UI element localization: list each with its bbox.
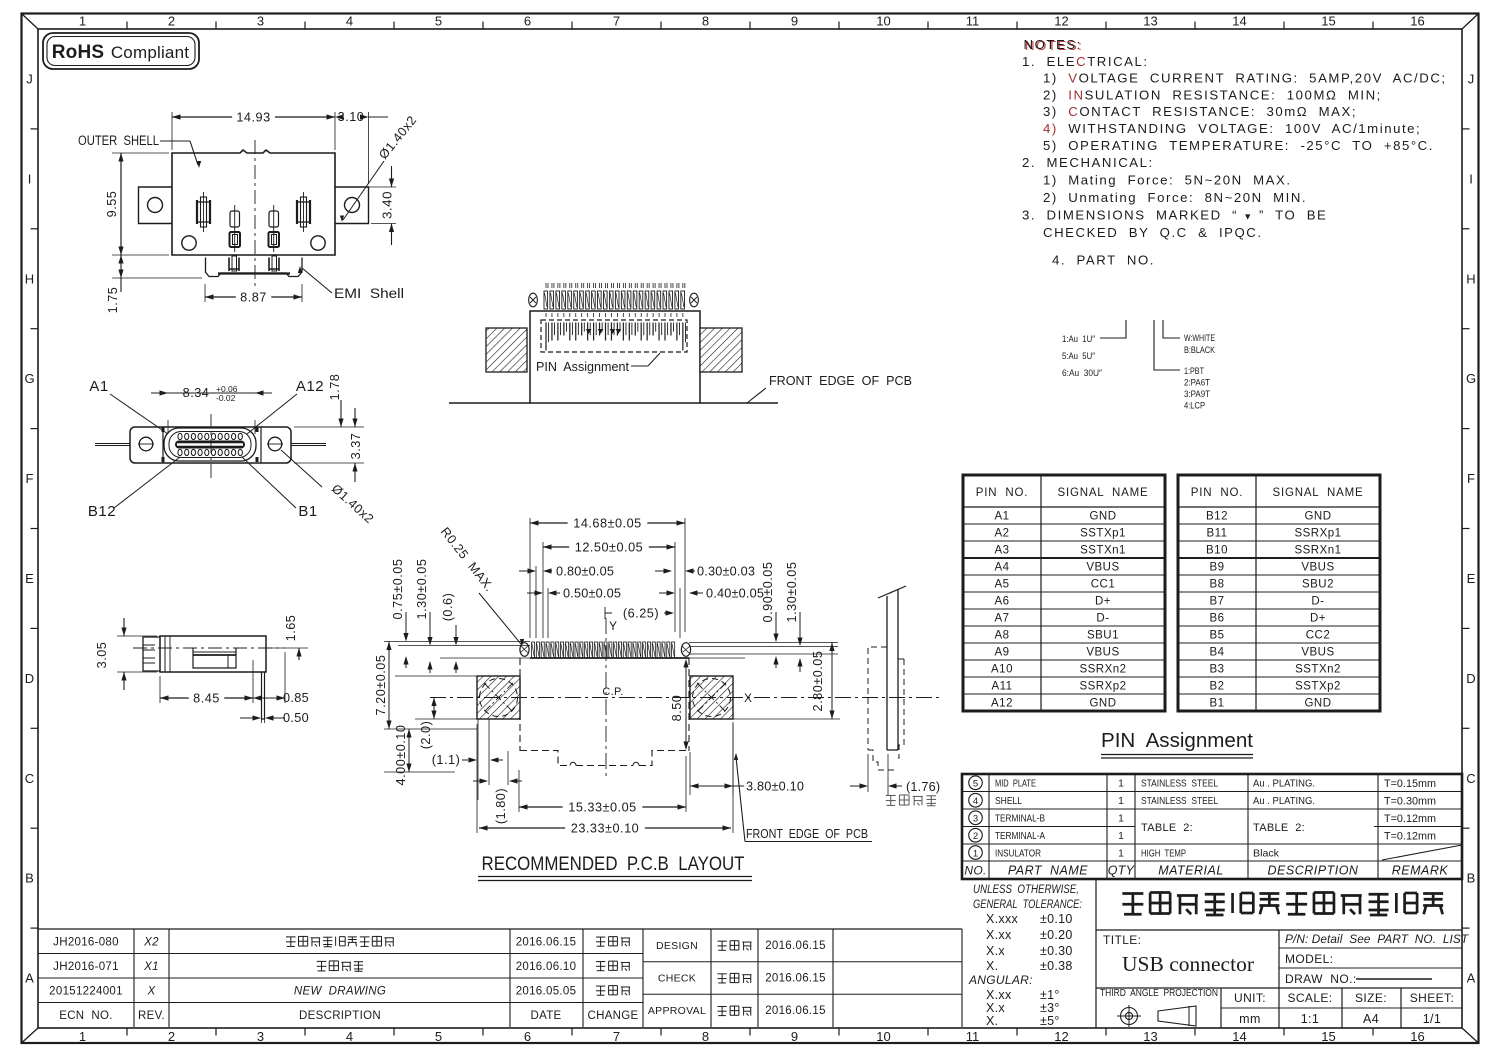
view front face	[88, 374, 377, 527]
svg-text:PART NAME: PART NAME	[1008, 864, 1088, 878]
svg-text:1.30±0.05: 1.30±0.05	[415, 559, 429, 620]
svg-text:8.45: 8.45	[193, 692, 220, 706]
svg-text:0.75±0.05: 0.75±0.05	[391, 559, 405, 620]
svg-text:Y: Y	[609, 619, 618, 633]
svg-text:2016.06.15: 2016.06.15	[765, 940, 826, 952]
svg-text:X: X	[147, 985, 157, 997]
svg-text:PIN Assignment: PIN Assignment	[1101, 730, 1253, 752]
dim 4.00	[384, 725, 455, 786]
svg-text:15: 15	[1321, 1029, 1335, 1044]
svg-text:A: A	[1467, 971, 1476, 986]
centerline view1	[254, 140, 256, 287]
dim 14.93	[172, 111, 335, 151]
extension lines right layout	[689, 643, 840, 720]
left mounting tab	[139, 187, 173, 224]
revision table	[38, 929, 962, 1027]
column numbers bottom	[79, 1029, 1425, 1045]
svg-text:2016.05.05: 2016.05.05	[516, 985, 577, 997]
label A12	[247, 378, 324, 434]
svg-text:SHEET:: SHEET:	[1410, 991, 1454, 1005]
label B12	[88, 457, 180, 520]
svg-text:GND: GND	[1304, 698, 1331, 710]
svg-text:B6: B6	[1209, 613, 1224, 625]
svg-text:0.90±0.05: 0.90±0.05	[761, 562, 775, 623]
title RECOMMENDED PCB LAYOUT	[478, 853, 752, 881]
svg-text:5: 5	[435, 1029, 442, 1044]
svg-text:PIN NO.: PIN NO.	[976, 487, 1028, 499]
svg-text:±0.10: ±0.10	[1040, 912, 1073, 926]
svg-text:2. MECHANICAL:: 2. MECHANICAL:	[1022, 155, 1154, 170]
dim 0.75 left	[391, 559, 409, 668]
svg-text:13: 13	[1143, 1029, 1157, 1044]
pads row layout	[520, 642, 691, 658]
hatch left layout	[477, 676, 520, 719]
dim 3.80	[690, 722, 804, 795]
svg-text:5) OPERATING TEMPERATURE: -: 5) OPERATING TEMPERATURE: -25°C TO +85°C…	[1043, 138, 1434, 153]
tiny pad labels	[546, 283, 685, 317]
svg-text:2016.06.15: 2016.06.15	[516, 936, 577, 948]
svg-text:A12: A12	[296, 378, 324, 395]
column numbers top	[79, 14, 1425, 29]
tolerance block	[968, 879, 1096, 1028]
svg-text:12: 12	[1054, 14, 1068, 29]
svg-text:G: G	[24, 371, 34, 386]
svg-text:FRONT EDGE OF PCB: FRONT EDGE OF PCB	[769, 373, 912, 388]
svg-text:INSULATOR: INSULATOR	[995, 847, 1041, 859]
svg-text:STAINLESS STEEL: STAINLESS STEEL	[1141, 778, 1218, 790]
svg-text:DESCRIPTION: DESCRIPTION	[299, 1010, 381, 1022]
svg-text:15.33±0.05: 15.33±0.05	[568, 801, 636, 815]
svg-text:J: J	[26, 71, 33, 86]
svg-text:SHELL: SHELL	[995, 795, 1022, 807]
svg-text:C: C	[25, 771, 34, 786]
svg-text:ANGULAR:: ANGULAR:	[968, 973, 1033, 987]
svg-text:15: 15	[1321, 14, 1335, 29]
svg-text:A5: A5	[994, 579, 1009, 591]
svg-text:2: 2	[973, 831, 978, 842]
projection and sheet info	[1100, 988, 1462, 1028]
board edge lines	[878, 586, 906, 750]
svg-text:±1°: ±1°	[1040, 988, 1060, 1002]
svg-text:7: 7	[613, 1029, 620, 1044]
svg-text:X.xx: X.xx	[986, 928, 1012, 942]
view top on PCB	[449, 283, 912, 403]
svg-text:D+: D+	[1310, 613, 1326, 625]
dim 12.50	[543, 541, 675, 639]
svg-text:SBU2: SBU2	[1302, 579, 1334, 591]
svg-text:SBU1: SBU1	[1087, 630, 1119, 642]
svg-text:3: 3	[257, 1029, 264, 1044]
svg-text:RECOMMENDED P.C.B LAYOUT: RECOMMENDED P.C.B LAYOUT	[482, 853, 745, 875]
svg-text:(2.0): (2.0)	[419, 721, 433, 750]
svg-text:9: 9	[791, 14, 798, 29]
svg-text:ECN NO.: ECN NO.	[59, 1010, 113, 1022]
svg-text:A2: A2	[994, 528, 1009, 540]
svg-text:B: B	[25, 871, 34, 886]
svg-text:SSRXn1: SSRXn1	[1294, 545, 1341, 557]
svg-text:REV.: REV.	[138, 1010, 165, 1022]
svg-text:2) Unmating Force: 8N~20N: 2) Unmating Force: 8N~20N MIN.	[1043, 190, 1307, 205]
PIN Assignment title	[1101, 730, 1253, 758]
pcb edge lines	[449, 402, 778, 404]
svg-text:DATE: DATE	[530, 1010, 561, 1022]
svg-text:STAINLESS STEEL: STAINLESS STEEL	[1141, 795, 1218, 807]
dim 1.75	[106, 255, 202, 313]
svg-text:B:BLACK: B:BLACK	[1184, 345, 1216, 356]
front connector insert	[164, 428, 256, 461]
svg-text:4:LCP: 4:LCP	[1184, 401, 1205, 412]
svg-text:UNLESS OTHERWISE,: UNLESS OTHERWISE,	[973, 884, 1079, 896]
svg-text:9: 9	[791, 1029, 798, 1044]
label dia 1.40x2 view2	[281, 450, 376, 526]
svg-text:1: 1	[1118, 814, 1124, 825]
svg-text:CHECK: CHECK	[658, 973, 696, 985]
svg-text:3.80±0.10: 3.80±0.10	[746, 780, 804, 794]
svg-text:B12: B12	[1206, 511, 1228, 523]
svg-text:B11: B11	[1206, 528, 1227, 540]
svg-text:A1: A1	[89, 378, 108, 395]
dim 0.50	[240, 710, 309, 725]
svg-text:X: X	[744, 691, 753, 705]
svg-text:MID PLATE: MID PLATE	[995, 778, 1036, 790]
svg-text:H: H	[25, 271, 34, 286]
svg-text:DESIGN: DESIGN	[656, 940, 698, 952]
right mounting tab	[335, 187, 369, 224]
pin table A	[963, 475, 1165, 711]
pin table B	[1178, 475, 1380, 711]
side solder pin	[262, 672, 265, 719]
dim 2.80	[811, 643, 835, 720]
svg-text:3:PA9T: 3:PA9T	[1184, 389, 1210, 400]
dim 0.6 left	[441, 593, 459, 673]
dim 9.55	[105, 153, 169, 255]
svg-text:1.75: 1.75	[106, 287, 120, 314]
svg-text:B2: B2	[1209, 681, 1224, 693]
centerline view2	[210, 414, 212, 481]
dim 1.1	[432, 719, 503, 800]
svg-text:±0.20: ±0.20	[1040, 928, 1073, 942]
svg-text:D: D	[25, 671, 34, 686]
svg-text:7.20±0.05: 7.20±0.05	[374, 655, 388, 716]
dim 3.05	[95, 618, 157, 690]
svg-text:Black: Black	[1253, 847, 1280, 859]
svg-text:T=0.12mm: T=0.12mm	[1384, 813, 1436, 825]
label OUTER SHELL	[78, 133, 201, 168]
svg-text:4: 4	[346, 14, 353, 29]
svg-text:DESCRIPTION: DESCRIPTION	[1268, 864, 1359, 878]
svg-text:TERMINAL-A: TERMINAL-A	[995, 830, 1045, 842]
svg-text:SSTXn1: SSTXn1	[1080, 545, 1126, 557]
svg-text:-0.02: -0.02	[216, 393, 236, 403]
svg-text:0.50±0.05: 0.50±0.05	[563, 587, 621, 601]
svg-text:10: 10	[876, 1029, 890, 1044]
svg-text:X.xxx: X.xxx	[986, 912, 1019, 926]
svg-text:SSRXp1: SSRXp1	[1294, 528, 1341, 540]
svg-text:16: 16	[1410, 1029, 1424, 1044]
notes text block	[1022, 37, 1447, 267]
svg-text:B12: B12	[88, 503, 116, 520]
svg-text:0.85: 0.85	[283, 691, 309, 705]
svg-text:1: 1	[1118, 831, 1124, 842]
svg-text:UNIT:: UNIT:	[1234, 991, 1266, 1005]
svg-text:1: 1	[1118, 796, 1124, 807]
svg-text:2.80±0.05: 2.80±0.05	[811, 651, 825, 712]
svg-text:2016.06.15: 2016.06.15	[765, 1005, 826, 1017]
label FRONT EDGE OF PCB layout	[734, 753, 872, 842]
svg-text:APPROVAL: APPROVAL	[648, 1005, 706, 1017]
svg-text:(0.6): (0.6)	[441, 593, 455, 622]
svg-text:14: 14	[1232, 14, 1246, 29]
svg-text:F: F	[26, 471, 34, 486]
svg-text:1:PBT: 1:PBT	[1184, 366, 1204, 377]
svg-text:1. ELECTRICAL:: 1. ELECTRICAL:	[1022, 54, 1149, 69]
svg-text:2016.06.10: 2016.06.10	[516, 961, 577, 973]
svg-text:14.68±0.05: 14.68±0.05	[573, 517, 641, 531]
svg-text:3. DIMENSIONS MARKED “ ▼ ”: 3. DIMENSIONS MARKED “ ▼ ” TO BE	[1022, 207, 1327, 222]
svg-text:GND: GND	[1089, 698, 1116, 710]
dim 8.87	[205, 284, 302, 305]
svg-text:B5: B5	[1209, 630, 1224, 642]
view outer shell	[78, 110, 420, 313]
label EMI Shell	[298, 266, 404, 301]
svg-text:B9: B9	[1209, 562, 1224, 574]
svg-text:B1: B1	[1209, 698, 1224, 710]
svg-text:11: 11	[966, 1029, 980, 1044]
svg-text:±0.38: ±0.38	[1040, 959, 1073, 973]
svg-text:NOTES:: NOTES:	[1024, 37, 1082, 52]
svg-text:14: 14	[1232, 1029, 1246, 1044]
svg-text:A8: A8	[994, 630, 1009, 642]
svg-text:3.40: 3.40	[381, 191, 395, 219]
shell rivet holes	[182, 236, 325, 250]
svg-text:C: C	[1466, 771, 1475, 786]
svg-text:1: 1	[79, 14, 86, 29]
svg-text:4: 4	[346, 1029, 353, 1044]
svg-text:H: H	[1466, 271, 1475, 286]
svg-text:JH2016-080: JH2016-080	[53, 936, 119, 948]
svg-text:T=0.30mm: T=0.30mm	[1384, 795, 1436, 807]
svg-text:D: D	[1466, 671, 1475, 686]
dim 8.50	[670, 659, 689, 750]
svg-text:1: 1	[973, 848, 978, 859]
front pins	[163, 427, 257, 462]
svg-text:D-: D-	[1311, 596, 1324, 608]
connector dashed profile	[868, 647, 904, 770]
svg-text:1.30±0.05: 1.30±0.05	[785, 562, 799, 623]
svg-text:0.40±0.05: 0.40±0.05	[706, 587, 764, 601]
svg-text:TABLE 2:: TABLE 2:	[1253, 822, 1305, 834]
dim 1.65	[268, 615, 308, 660]
svg-text:7: 7	[613, 14, 620, 29]
svg-text:DRAW NO.:: DRAW NO.:	[1285, 972, 1357, 986]
title block company name	[1096, 893, 1462, 931]
svg-text:6:Au 30U″: 6:Au 30U″	[1062, 368, 1103, 379]
svg-text:3: 3	[973, 814, 978, 825]
svg-text:RoHS: RoHS	[52, 42, 105, 63]
svg-text:4) WITHSTANDING VOLTAGE: 10: 4) WITHSTANDING VOLTAGE: 100V AC/1minute…	[1043, 121, 1421, 136]
svg-text:X.: X.	[986, 959, 998, 973]
view board height profile	[850, 586, 940, 806]
dim 3.10	[335, 110, 388, 184]
dim 0.30	[655, 565, 755, 579]
extension lines left layout	[384, 642, 530, 730]
dim 0.90	[761, 562, 779, 668]
svg-text:13: 13	[1143, 14, 1157, 29]
front tab holes	[138, 437, 283, 451]
svg-text:4.00±0.10: 4.00±0.10	[394, 725, 408, 786]
svg-text:G: G	[1466, 371, 1476, 386]
svg-text:0.80±0.05: 0.80±0.05	[556, 565, 614, 579]
svg-text:SIGNAL NAME: SIGNAL NAME	[1058, 487, 1149, 499]
dim 1.30 right	[785, 562, 803, 672]
hatch right layout	[690, 676, 733, 719]
svg-text:1) Mating Force: 5N~20N MA: 1) Mating Force: 5N~20N MAX.	[1043, 173, 1292, 188]
svg-text:1.78: 1.78	[328, 374, 342, 401]
label board height hanzi	[886, 795, 936, 806]
plating and material legend	[1062, 320, 1216, 412]
svg-text:TERMINAL-B: TERMINAL-B	[995, 813, 1045, 825]
svg-text:4. PART NO.: 4. PART NO.	[1052, 252, 1155, 267]
svg-text:VBUS: VBUS	[1086, 562, 1119, 574]
svg-text:REMARK: REMARK	[1392, 864, 1449, 878]
svg-text:VBUS: VBUS	[1086, 647, 1119, 659]
svg-text:SSTXn2: SSTXn2	[1295, 664, 1341, 676]
dim 1.30 left	[415, 559, 433, 673]
svg-text:GND: GND	[1089, 511, 1116, 523]
svg-text:TITLE:: TITLE:	[1103, 933, 1141, 947]
svg-text:B7: B7	[1209, 596, 1224, 608]
view side profile	[95, 615, 309, 725]
RoHS Compliant badge	[43, 33, 199, 69]
svg-text:FRONT EDGE OF PCB: FRONT EDGE OF PCB	[746, 827, 868, 841]
svg-text:0.30±0.03: 0.30±0.03	[697, 565, 755, 579]
solder pads top	[529, 291, 699, 309]
svg-text:1/1: 1/1	[1423, 1012, 1442, 1026]
svg-text:E: E	[1467, 571, 1476, 586]
svg-text:16: 16	[1410, 14, 1424, 29]
svg-text:9.55: 9.55	[105, 191, 119, 218]
svg-text:GND: GND	[1304, 511, 1331, 523]
outer shell body	[172, 150, 335, 255]
dim 15.33	[519, 756, 686, 815]
svg-text:±3°: ±3°	[1040, 1001, 1060, 1015]
svg-text:10: 10	[876, 14, 890, 29]
svg-text:TABLE 2:: TABLE 2:	[1141, 822, 1193, 834]
svg-text:3.10: 3.10	[338, 110, 365, 124]
svg-text:Compliant: Compliant	[111, 43, 189, 62]
svg-text:12: 12	[1054, 1029, 1068, 1044]
svg-text:P/N: Detail See PART NO. L: P/N: Detail See PART NO. LIST	[1285, 932, 1469, 946]
dim 3.37	[294, 408, 364, 482]
svg-text:4: 4	[973, 796, 978, 807]
svg-text:THIRD ANGLE PROJECTION: THIRD ANGLE PROJECTION	[1100, 988, 1218, 999]
svg-text:2: 2	[168, 1029, 175, 1044]
svg-text:VBUS: VBUS	[1301, 562, 1334, 574]
svg-text:3.05: 3.05	[95, 642, 109, 669]
svg-text:MATERIAL: MATERIAL	[1158, 864, 1224, 878]
dim 6.25	[605, 607, 674, 621]
svg-text:A4: A4	[994, 562, 1009, 574]
svg-text:1.65: 1.65	[284, 615, 298, 642]
dim 1.80	[473, 751, 522, 824]
side leads	[95, 444, 326, 446]
svg-text:SSRXn2: SSRXn2	[1079, 664, 1126, 676]
svg-text:B4: B4	[1209, 647, 1224, 659]
svg-text:(1.80): (1.80)	[494, 788, 508, 824]
svg-text:A11: A11	[991, 681, 1012, 693]
svg-text:6: 6	[524, 1029, 531, 1044]
svg-text:SIZE:: SIZE:	[1355, 991, 1387, 1005]
side body	[143, 636, 266, 672]
row letters right	[1462, 71, 1476, 985]
connector body top view	[530, 311, 700, 403]
svg-text:MODEL:: MODEL:	[1285, 952, 1333, 966]
svg-text:5: 5	[973, 779, 978, 790]
svg-text:1) VOLTAGE CURRENT RATING:: 1) VOLTAGE CURRENT RATING: 5AMP,20V AC/D…	[1043, 71, 1447, 86]
svg-text:A10: A10	[991, 664, 1013, 676]
svg-text:1: 1	[79, 1029, 86, 1044]
dim 23.33	[477, 724, 733, 836]
svg-text:D+: D+	[1095, 596, 1111, 608]
title block fields	[1096, 930, 1469, 988]
svg-text:14.93: 14.93	[236, 111, 270, 125]
dim 8.34	[151, 384, 272, 434]
svg-text:B10: B10	[1206, 545, 1228, 557]
svg-text:3: 3	[257, 14, 264, 29]
svg-text:JH2016-071: JH2016-071	[53, 961, 119, 973]
svg-text:E: E	[25, 571, 34, 586]
svg-text:A6: A6	[994, 596, 1009, 608]
svg-text:3) CONTACT RESISTANCE: 30mΩ: 3) CONTACT RESISTANCE: 30mΩ MAX;	[1043, 104, 1357, 119]
svg-text:HIGH TEMP: HIGH TEMP	[1141, 847, 1186, 859]
dim 1.78	[328, 374, 344, 427]
svg-text:PIN NO.: PIN NO.	[1191, 487, 1243, 499]
svg-text:W:WHITE: W:WHITE	[1184, 333, 1215, 344]
centerline X layout	[430, 691, 940, 705]
svg-text:SSTXp1: SSTXp1	[1080, 528, 1126, 540]
svg-text:NEW DRAWING: NEW DRAWING	[294, 985, 386, 997]
svg-text:8.50: 8.50	[670, 695, 684, 722]
svg-text:±5°: ±5°	[1040, 1014, 1060, 1028]
dim 3.40	[337, 166, 396, 245]
svg-text:11: 11	[966, 14, 980, 29]
svg-text:(6.25): (6.25)	[623, 607, 659, 621]
dim 1.76	[850, 754, 940, 796]
centerline view3	[133, 647, 285, 649]
svg-text:NO.: NO.	[964, 864, 986, 878]
hatch right top view	[700, 328, 742, 372]
svg-text:1:1: 1:1	[1301, 1012, 1320, 1026]
svg-text:VBUS: VBUS	[1301, 647, 1334, 659]
svg-text:SSRXp2: SSRXp2	[1079, 681, 1126, 693]
pin assignment dashed box	[541, 320, 687, 352]
parts list table	[962, 774, 1462, 879]
svg-text:PIN Assignment: PIN Assignment	[536, 359, 629, 374]
label FRONT EDGE OF PCB top	[747, 373, 912, 403]
svg-text:A12: A12	[991, 698, 1013, 710]
label B1	[242, 457, 318, 520]
svg-text:SSTXp2: SSTXp2	[1295, 681, 1341, 693]
dim 2.0	[419, 698, 437, 750]
dim 0.80	[519, 565, 614, 639]
svg-text:USB connector: USB connector	[1122, 952, 1254, 976]
dim 8.45	[160, 660, 253, 706]
svg-text:OUTER SHELL: OUTER SHELL	[78, 133, 159, 148]
label R0.25 MAX	[438, 525, 524, 646]
svg-text:B1: B1	[298, 503, 317, 520]
svg-text:5:Au 5U″: 5:Au 5U″	[1062, 351, 1096, 362]
svg-text:X.x: X.x	[986, 1001, 1005, 1015]
